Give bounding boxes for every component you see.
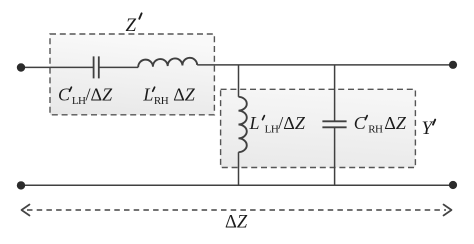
svg-text:ΔZ: ΔZ	[225, 213, 248, 233]
capacitor C'RH (shunt)	[322, 121, 346, 127]
node: top-left terminal	[17, 63, 25, 71]
wire: shunt branch 2 upper	[334, 65, 336, 121]
wire: bottom rail	[21, 184, 453, 186]
wire: shunt branch 2 lower	[334, 127, 336, 185]
inductor L'LH (shunt, 4 loops)	[239, 97, 247, 152]
wire: shunt branch 1 lower	[238, 152, 240, 185]
svg-text:CLH/ΔZ: CLH/ΔZ	[58, 84, 113, 107]
shunt admittance dashed box Y'	[221, 89, 416, 167]
node: bottom-left terminal	[17, 181, 25, 189]
wire: shunt branch 1 upper	[238, 65, 240, 97]
node: bottom-right terminal	[449, 181, 457, 189]
inductor L'RH (series, 4 loops)	[138, 58, 197, 67]
series impedance dashed box Z'	[50, 34, 214, 115]
wire: between capacitor and inductor	[99, 66, 138, 68]
wire: top-left segment	[21, 66, 94, 68]
svg-text:Z: Z	[126, 15, 137, 36]
wire: top-right segment	[197, 64, 453, 66]
node: top-right terminal	[449, 61, 457, 69]
dimension arrow dZ (dashed, double-headed)	[27, 209, 446, 211]
capacitor C'LH (series)	[94, 56, 99, 78]
